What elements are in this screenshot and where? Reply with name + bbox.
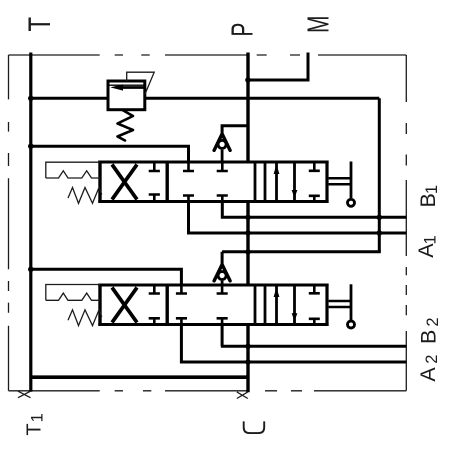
V2 blocked port marks box4: [309, 285, 320, 325]
node: CV2-line/C junction: [245, 249, 251, 255]
V2 return spring: [68, 310, 102, 326]
left edge: [8, 55, 10, 391]
wire: T rail (left vertical): [29, 53, 32, 392]
V2 top edge: [98, 284, 328, 287]
V2 crossed-flow X: [112, 288, 137, 323]
top edge: [9, 54, 407, 56]
node: A1/C junction: [245, 230, 251, 236]
V1 flow line with down arrow: [293, 162, 296, 202]
spool valve V2 body: [98, 284, 328, 327]
V1 blocked port marks box4: [309, 162, 320, 202]
right edge: [405, 55, 407, 391]
V1 right edge: [325, 161, 328, 204]
check valve CV2 seat: [214, 265, 230, 281]
node: junction T rail / P2 line: [28, 267, 34, 273]
V2 blocked port marks box2 left: [176, 285, 187, 325]
V1 position lines: [254, 162, 257, 202]
V1 bottom edge: [98, 200, 328, 203]
wire: P1 feed line from rail to valve V1: [31, 146, 189, 162]
V1 flow line with up arrow: [275, 162, 278, 202]
relief valve pilot line: [127, 72, 155, 94]
wire: B2 work line: [221, 325, 406, 347]
V2 hand lever: [329, 284, 355, 328]
enclosure boundary (valve body envelope, chain line): [9, 55, 407, 391]
relief valve internal line: [108, 84, 145, 86]
node: B2/C junction: [245, 344, 251, 350]
node: B1/right-vertical junction: [377, 215, 383, 221]
relief valve DV1 body: [108, 81, 145, 110]
svg-text:P: P: [225, 23, 259, 37]
label C (carryover port): [244, 421, 265, 433]
V1 top edge: [98, 161, 328, 164]
bottom edge: [9, 390, 407, 392]
V1 left edge: [98, 161, 101, 204]
svg-text:T: T: [22, 17, 57, 32]
V1 box divider: [165, 162, 168, 202]
V2 detent housing: [46, 285, 100, 301]
wire: tank line T to C vertical: [31, 375, 248, 379]
wire: P vertical line (P port to valve V1): [246, 53, 249, 163]
node: A1/right-vertical junction: [377, 230, 383, 236]
node: B1/C junction: [245, 215, 251, 221]
check valve CV1 seat: [214, 134, 230, 151]
node: junction T rail / P1 line: [28, 143, 34, 149]
check valve CV2 line up: [221, 252, 224, 265]
V1 hand lever: [329, 162, 355, 207]
port marker x at C: [237, 392, 248, 399]
V2 flow line with up arrow: [275, 285, 278, 325]
wire: check valve CV2 supply line: [222, 250, 381, 253]
spool valve V1 body: [98, 161, 328, 204]
node: junction T rail / relief line: [28, 96, 34, 102]
wire: right vertical from relief line down to check line: [378, 98, 381, 252]
V1 detent housing: [46, 162, 100, 178]
V1 blocked port marks box2 right: [217, 162, 228, 202]
relief valve spring: [118, 110, 134, 141]
V1 crossed-flow X: [112, 165, 137, 200]
svg-text:M: M: [300, 16, 335, 34]
V2 left edge: [98, 284, 101, 327]
wire: A2 work line: [181, 325, 406, 363]
V1 blocked port marks box1: [149, 162, 160, 202]
V2 box divider: [165, 285, 168, 325]
port marker x at T1: [18, 391, 31, 398]
wire: C vertical line (below V1 through V2 to C port): [246, 202, 249, 286]
V2 right edge: [325, 284, 328, 327]
wire: A1 work line: [189, 202, 407, 234]
V2 flow line with down arrow: [293, 285, 296, 325]
V2 blocked port marks box1: [149, 285, 160, 325]
check valve CV1 ball: [218, 140, 226, 148]
wire: M gauge line: [248, 53, 308, 81]
V2 bottom edge: [98, 323, 328, 326]
V2 blocked port marks box2 right: [217, 285, 228, 325]
V2 position lines: [254, 285, 257, 325]
check valve CV1 stub to valve: [221, 150, 224, 162]
check valve CV2 ball: [218, 272, 226, 280]
wire: P2 feed line from rail to valve V2: [31, 269, 182, 285]
node: A2/C junction: [245, 359, 251, 365]
wire: relief valve main line (T rail to x379): [31, 97, 380, 100]
check valve CV2 stub to valve: [221, 281, 224, 285]
node: M junction on P line: [245, 77, 251, 83]
relief valve flow arrow: [121, 86, 145, 89]
check valve CV1 line to P vertical: [222, 126, 248, 134]
V1 return spring: [68, 188, 102, 204]
V1 blocked port marks box2 left: [183, 162, 194, 202]
wire: B1 work line: [222, 202, 406, 218]
